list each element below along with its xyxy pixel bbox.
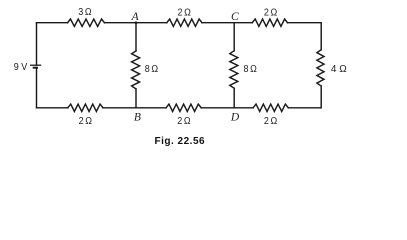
battery V1 long plate [30,64,41,66]
wire top between node A and R2 [136,22,167,24]
svg-text:2 Ω: 2 Ω [264,116,277,128]
node A junction dot [135,21,138,24]
battery V1 short plate [33,67,38,69]
svg-text:3 Ω: 3 Ω [78,7,91,19]
wire branch R8 to B [135,89,137,108]
resistor R9 8ohm zigzag vertical C-D [230,51,238,89]
wire bottom between node B and R6 [136,107,166,109]
wire top-left segment [37,22,68,24]
wire bottom between R6 and node D [201,107,234,109]
resistor R2 2ohm zigzag top middle [167,19,202,26]
wire top-right corner segment [288,22,322,24]
svg-text:2 Ω: 2 Ω [264,7,277,19]
svg-text:8 Ω: 8 Ω [244,64,257,76]
wire right upper [320,23,322,50]
svg-text:2 Ω: 2 Ω [79,116,92,128]
wire bottom-right corner segment [288,107,321,109]
resistor R4 4ohm zigzag right [317,50,324,86]
resistor R5 2ohm zigzag bottom left [68,104,103,111]
wire right lower [320,86,322,108]
resistor R1 3ohm zigzag [68,19,105,26]
resistor R8 8ohm zigzag vertical A-B [132,51,140,89]
wire branch A to R8 [135,23,137,51]
resistor R6 2ohm zigzag bottom middle [166,104,201,111]
resistor R3 2ohm zigzag top right [252,19,287,26]
svg-text:D: D [230,112,240,124]
svg-text:4 Ω: 4 Ω [331,64,347,75]
wire left lower from battery [36,68,38,108]
svg-text:Fig. 22.56: Fig. 22.56 [155,136,206,147]
wire left upper from battery [36,23,38,65]
wire top between R2 and node C [202,22,234,24]
svg-text:2 Ω: 2 Ω [177,116,190,128]
wire branch R9 to D [233,88,235,108]
wire bottom between node D and R7 [234,107,253,109]
svg-text:8 Ω: 8 Ω [145,64,158,76]
wire top between node C and R3 [234,22,252,24]
svg-text:9 V: 9 V [14,61,28,73]
svg-text:A: A [131,11,140,23]
wire branch C to R9 [233,23,235,51]
wire bottom-left segment [37,107,68,109]
wire bottom between R5 and node B [103,107,136,109]
svg-text:C: C [231,11,239,23]
wire top between R1 and node A [104,22,136,24]
svg-text:B: B [134,112,141,124]
svg-text:2 Ω: 2 Ω [178,7,191,19]
resistor R7 2ohm zigzag bottom right [253,104,288,111]
